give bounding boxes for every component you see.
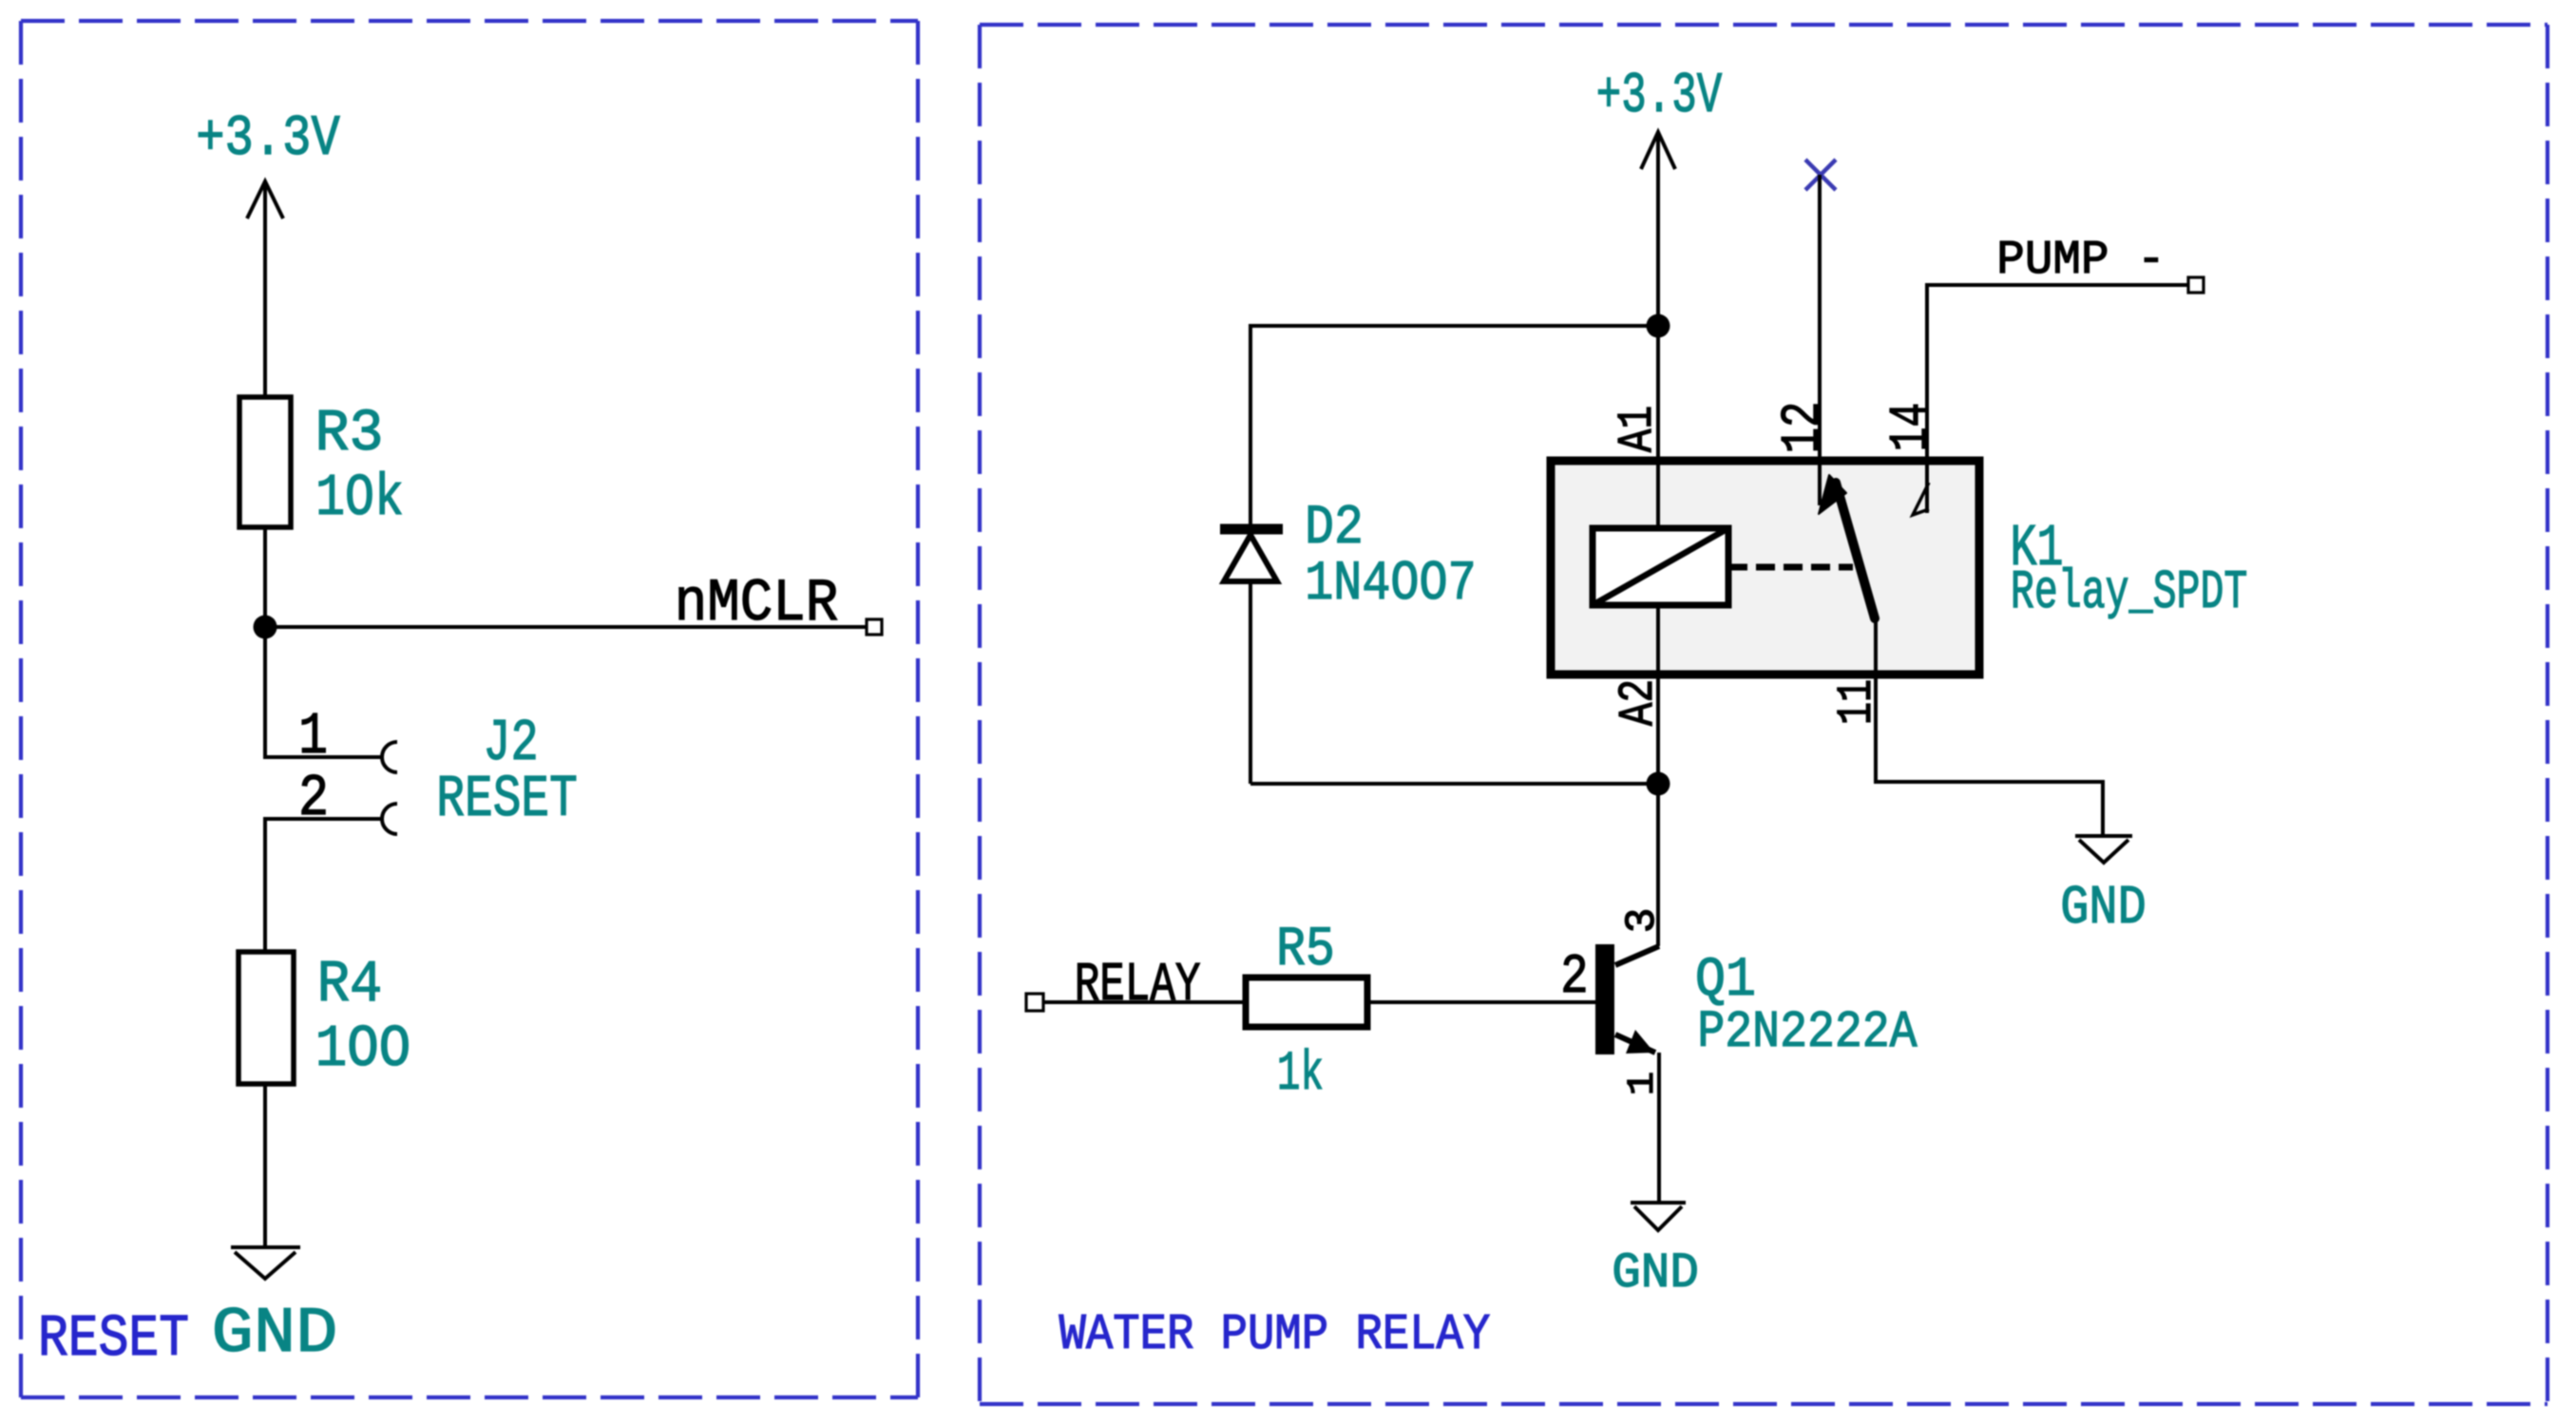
wire pin 12 to no-connect [1818,175,1822,461]
svg-text:D2: D2 [1305,496,1364,560]
svg-text:1Ok: 1Ok [315,466,404,533]
relay K1 armature [1836,483,1875,618]
connector J2 pin 1 open clip [382,742,397,772]
wire pin 14 to PUMP - [1927,285,2194,461]
wire R5 to Q1 base [1367,1000,1595,1004]
svg-text:3: 3 [1619,908,1667,934]
power symbol +3.3V arrow (left) [247,181,283,218]
svg-text:GND: GND [1612,1246,1699,1301]
wire R4 to GND [263,1084,267,1247]
wire junction to J2 pin 1 [265,627,381,757]
resistor R5 [1246,978,1367,1027]
junction node bottom (collector rail) [1647,772,1670,796]
svg-text:+3.3V: +3.3V [1596,64,1723,128]
svg-text:2: 2 [1560,946,1588,1009]
connector J2 pin 2 open clip [382,804,397,834]
svg-text:A2: A2 [1611,679,1667,726]
svg-text:1: 1 [298,705,328,771]
svg-text:14: 14 [1882,403,1944,451]
diode D2 triangle [1224,535,1277,581]
ground symbol GND (left) [231,1247,300,1279]
wire pin 14 stub inside relay [1925,461,1929,513]
resistor R4 [239,952,294,1084]
wire top rail to diode [1250,326,1658,524]
svg-text:R3: R3 [315,401,384,467]
relay K1 dashed actuator link [1728,564,1853,571]
svg-text:nMCLR: nMCLR [675,571,839,638]
wire nMCLR [265,625,867,629]
relay K1 body [1551,461,1979,674]
svg-text:RELAY: RELAY [1075,955,1201,1016]
wire J2 pin 2 to R4 [265,819,381,952]
diode D2 cathode bar [1220,524,1283,535]
svg-text:PUMP -: PUMP - [1996,234,2165,287]
wire diode anode down [1249,581,1252,784]
svg-text:Relay_SPDT: Relay_SPDT [2011,562,2247,624]
transistor Q1 base bar [1595,944,1614,1054]
wire emitter to GND [1657,1053,1661,1203]
no-connect X on pin 12 [1805,160,1836,190]
wire A2: coil to junction [1656,605,1660,784]
wire R3 to junction [263,527,267,627]
sheet border RESET box (dashed) [21,21,918,1397]
svg-text:1k: 1k [1277,1043,1324,1106]
svg-text:1N4OO7: 1N4OO7 [1305,554,1476,617]
hierarchical pin RELAY (open square) [1026,994,1043,1011]
svg-text:R5: R5 [1276,918,1335,981]
wire A1: junction to coil [1656,326,1660,528]
wire +3.3V to R3 [263,181,267,397]
transistor Q1 emitter lead [1615,1035,1655,1053]
svg-text:+3.3V: +3.3V [196,106,340,171]
wire +3.3V down to junction [1656,132,1660,326]
svg-text:12: 12 [1772,401,1834,453]
resistor R3 [239,397,291,527]
sheet border WATER PUMP RELAY box (dashed) [980,25,2547,1404]
hierarchical pin PUMP - (open square) [2188,277,2204,293]
svg-text:GND: GND [2060,878,2147,940]
wire bottom rail diode to junction [1250,782,1658,786]
svg-text:RESET: RESET [38,1307,189,1374]
transistor Q1 collector lead [1615,946,1659,965]
wire pin 12 stub inside relay [1818,461,1822,505]
power symbol +3.3V arrow (right) [1641,132,1675,169]
svg-text:WATER PUMP RELAY: WATER PUMP RELAY [1059,1307,1491,1364]
svg-text:R4: R4 [317,951,383,1018]
svg-text:1OO: 1OO [315,1016,410,1083]
wire junction to Q1 collector [1656,784,1660,946]
svg-text:RESET: RESET [436,766,577,833]
svg-text:2: 2 [298,767,329,833]
ground symbol GND (Q1) [1631,1203,1686,1230]
junction node (left) [254,616,277,639]
wire pin 11 to GND [1876,620,2103,836]
svg-text:GND: GND [212,1299,338,1371]
svg-text:Q1: Q1 [1695,948,1756,1012]
hierarchical pin nMCLR (open square) [867,619,882,635]
relay K1 pin 14 contact arrow [1913,483,1929,515]
junction node top (+3.3V rail) [1647,314,1670,338]
relay K1 coil [1593,528,1728,605]
svg-text:A1: A1 [1610,406,1666,452]
svg-text:P2N2222A: P2N2222A [1697,1004,1917,1062]
ground symbol GND (relay) [2075,836,2132,863]
wire RELAY to R5 [1043,1000,1246,1004]
